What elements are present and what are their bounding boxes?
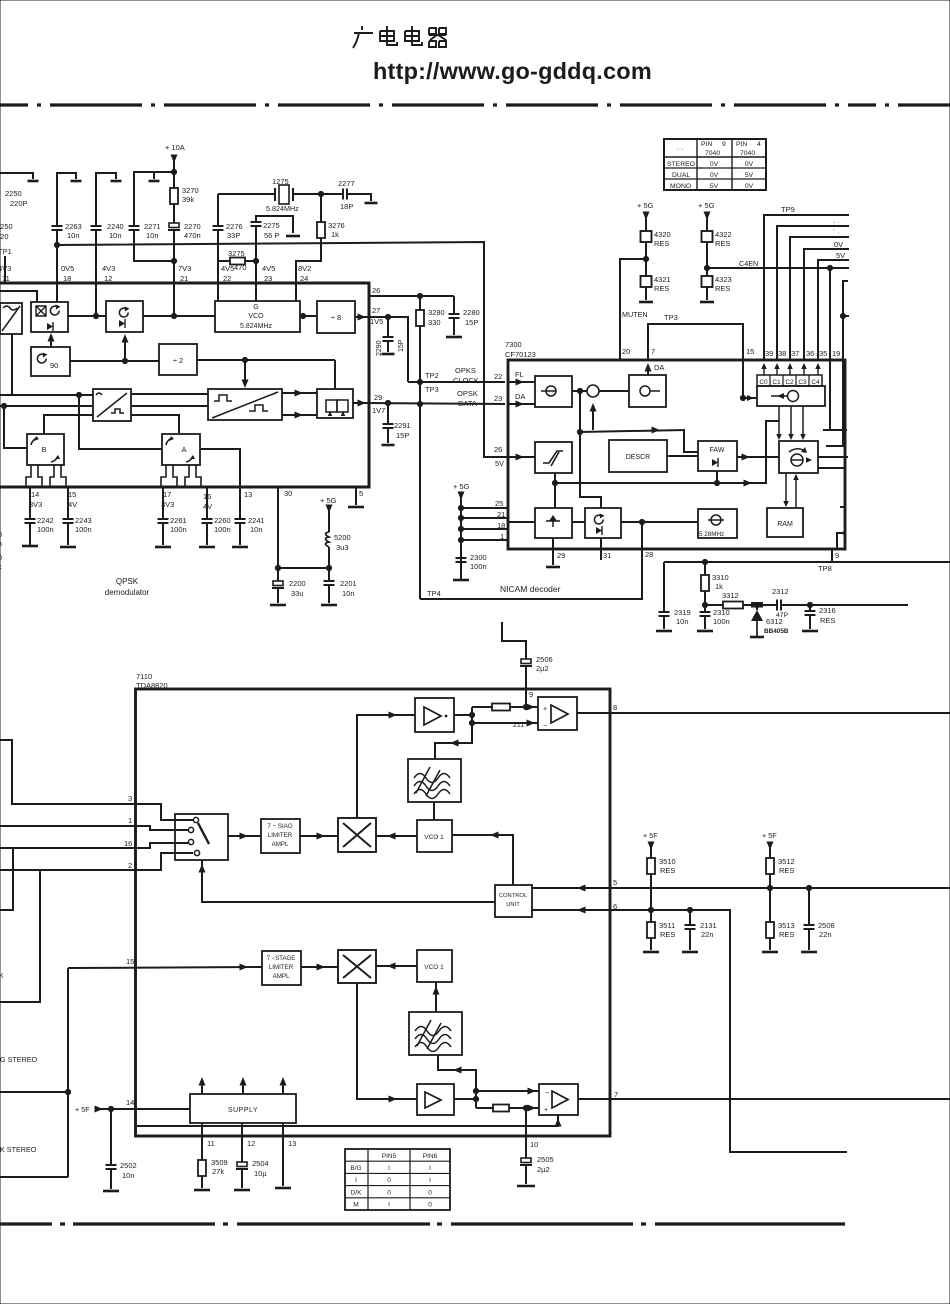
IC NICAM decoder box outline bbox=[508, 360, 845, 549]
svg-text:FAW: FAW bbox=[710, 447, 725, 454]
block opamp2 bbox=[539, 1084, 578, 1115]
svg-text:D/K: D/K bbox=[351, 1189, 363, 1196]
block 7-stage limiter ampl lower bbox=[262, 951, 301, 985]
svg-text:VCO 1: VCO 1 bbox=[424, 834, 444, 841]
block limiter slope bbox=[535, 442, 572, 473]
wire A switch right to pin13 bbox=[200, 449, 240, 487]
svg-text:+ 5F: + 5F bbox=[75, 1105, 90, 1114]
resistor 3312 bbox=[705, 604, 723, 606]
wire left edge to clock regen bbox=[508, 521, 535, 523]
wires interpolator to RAM bbox=[785, 473, 787, 505]
wire pin24 8V2 bbox=[296, 238, 321, 301]
svg-text:BB405B: BB405B bbox=[764, 628, 789, 635]
wire node bottom arrow bbox=[592, 406, 594, 430]
svg-text:2: 2 bbox=[128, 861, 132, 870]
capacitor 2319 10n bbox=[659, 612, 670, 616]
wire limiter1 to mixer1 bbox=[300, 835, 338, 837]
svg-text:0V5: 0V5 bbox=[61, 264, 74, 273]
svg-text:2508: 2508 bbox=[818, 921, 835, 930]
svg-text:5.824MHz: 5.824MHz bbox=[240, 323, 272, 330]
svg-text:C2: C2 bbox=[785, 379, 794, 386]
svg-text:15P: 15P bbox=[396, 431, 409, 440]
wire U1c bottom arrow bbox=[124, 338, 126, 358]
svg-text:100n: 100n bbox=[713, 617, 730, 626]
block mixer2 bbox=[338, 950, 376, 983]
block VCO1 upper bbox=[417, 820, 452, 852]
wire TP9 to pin39 bbox=[764, 215, 849, 361]
svg-text:B/G: B/G bbox=[350, 1165, 361, 1172]
capacitor 2310 100n bbox=[700, 612, 711, 616]
wire clock regen to phase diode bbox=[572, 521, 585, 523]
resistor 3270 39k bbox=[170, 188, 178, 204]
IC TDA8820 box outline bbox=[136, 689, 611, 1136]
wire mixer1 up to amp1 bbox=[357, 715, 415, 818]
svg-text:2260: 2260 bbox=[214, 516, 231, 525]
svg-text:RES: RES bbox=[715, 239, 730, 248]
block SUPPLY bbox=[190, 1094, 296, 1123]
wire QPSK CLOCK line TP2 bbox=[408, 381, 505, 383]
resistor 4322 RES bbox=[702, 231, 713, 242]
block phase diode bbox=[585, 508, 621, 538]
svg-text:0V: 0V bbox=[834, 240, 843, 249]
svg-text:TP3: TP3 bbox=[425, 385, 439, 394]
svg-text:2271: 2271 bbox=[144, 222, 161, 231]
IC QPSK demodulator box outline bbox=[0, 283, 369, 487]
capacitor 2263 10n bbox=[52, 226, 63, 230]
wire U1b to U1c bbox=[68, 315, 106, 317]
wire VCO2 to mixer2 bbox=[376, 965, 417, 967]
svg-text:MUTEN: MUTEN bbox=[622, 310, 648, 319]
wire eye coder to A switch top bbox=[131, 415, 179, 433]
capacitor 2240 10n bbox=[91, 226, 102, 230]
svg-text:10n: 10n bbox=[67, 231, 80, 240]
wire TP3 bracket pin7 pin15 bbox=[648, 324, 743, 361]
inductor 5200 3u3 bbox=[326, 532, 330, 547]
wire 3280 bottom TP2 TP3 vertical bbox=[419, 326, 421, 599]
svg-text:4V: 4V bbox=[68, 500, 77, 509]
svg-text:+: + bbox=[544, 1107, 548, 1114]
svg-text:RES: RES bbox=[660, 930, 675, 939]
svg-text:7110: 7110 bbox=[136, 672, 152, 681]
resistor 3310 1k bbox=[704, 562, 706, 575]
wire amp2 out bbox=[454, 1098, 476, 1100]
svg-text:211: 211 bbox=[513, 722, 524, 729]
wire 0V line to pin36 bbox=[804, 249, 849, 361]
resistor 3511 RES bbox=[650, 910, 652, 922]
svg-text:2250: 2250 bbox=[5, 189, 22, 198]
svg-text:100n: 100n bbox=[37, 525, 54, 534]
svg-text:−: − bbox=[545, 1090, 549, 1097]
wire pin5 to ground bbox=[355, 487, 357, 505]
resistor opamp2 plus line bbox=[476, 1107, 493, 1109]
svg-text:+ 10A: + 10A bbox=[165, 143, 185, 152]
svg-text:LIMITER: LIMITER bbox=[269, 964, 294, 971]
block filter2 bandpass bbox=[409, 1012, 462, 1055]
svg-text:7: 7 bbox=[614, 1090, 618, 1099]
wire phase shifter up-arrow to U1b bbox=[50, 335, 52, 347]
capacitor 2316 RES bbox=[809, 605, 811, 611]
block mixer1 bbox=[338, 818, 376, 852]
svg-text:http://www.go-gddq.com: http://www.go-gddq.com bbox=[373, 58, 652, 84]
svg-text:+ 5G: + 5G bbox=[698, 201, 715, 210]
svg-text:RES: RES bbox=[779, 866, 794, 875]
svg-text:RES: RES bbox=[779, 930, 794, 939]
top dash-dot separator line bbox=[0, 103, 950, 106]
wire node feedback vertical bbox=[580, 391, 601, 508]
wire MUTEN to pin20 bbox=[620, 259, 646, 361]
wires latch driver down to interpolator bbox=[778, 406, 780, 438]
svg-text:3275: 3275 bbox=[228, 249, 245, 258]
svg-text:2270: 2270 bbox=[184, 222, 201, 231]
svg-text:10n: 10n bbox=[250, 525, 263, 534]
svg-text:AMPL: AMPL bbox=[273, 973, 290, 980]
svg-text:MONO: MONO bbox=[670, 183, 691, 190]
block DESCR bbox=[609, 440, 667, 472]
svg-text:0: 0 bbox=[428, 1189, 432, 1196]
capacitor 2243 100n bbox=[67, 487, 69, 519]
wire phase shifter to div2 bbox=[70, 360, 159, 362]
svg-text:33u: 33u bbox=[291, 589, 304, 598]
svg-text:13: 13 bbox=[288, 1139, 296, 1148]
svg-text:7V3: 7V3 bbox=[178, 264, 191, 273]
wire pin18 into U1b bbox=[56, 283, 58, 302]
svg-text:VCO 1: VCO 1 bbox=[424, 964, 444, 971]
svg-text:10n: 10n bbox=[122, 1171, 135, 1180]
resistor 3510 RES bbox=[647, 858, 655, 874]
svg-text:13: 13 bbox=[244, 490, 252, 499]
svg-text:3276: 3276 bbox=[328, 221, 345, 230]
svg-text:29: 29 bbox=[374, 393, 382, 402]
wire VCO1 to mixer1 bbox=[376, 835, 417, 837]
svg-text:A: A bbox=[181, 445, 186, 454]
svg-text:7040: 7040 bbox=[740, 150, 755, 157]
resistor feedback opamp1 bbox=[472, 706, 492, 708]
svg-text:2261: 2261 bbox=[170, 516, 187, 525]
wire div8 output pin27 bbox=[355, 316, 369, 318]
svg-text:2291: 2291 bbox=[394, 421, 411, 430]
svg-text:2276: 2276 bbox=[226, 222, 243, 231]
svg-text:2504: 2504 bbox=[252, 1159, 269, 1168]
svg-text:4320: 4320 bbox=[654, 230, 671, 239]
svg-text:4V3: 4V3 bbox=[0, 264, 11, 273]
wires interpolator outputs right bbox=[818, 456, 848, 458]
svg-text:220P: 220P bbox=[10, 199, 28, 208]
svg-text:29: 29 bbox=[557, 551, 565, 560]
svg-text:2200: 2200 bbox=[289, 579, 306, 588]
svg-text:K STEREO: K STEREO bbox=[0, 1145, 37, 1154]
svg-text:RES: RES bbox=[660, 866, 675, 875]
svg-text:I: I bbox=[429, 1177, 431, 1184]
svg-text:RES: RES bbox=[654, 284, 669, 293]
svg-text:90: 90 bbox=[50, 361, 58, 370]
svg-text:3512: 3512 bbox=[778, 857, 795, 866]
wire pin22 pin23 pin24 into VCO bbox=[217, 283, 219, 301]
svg-text:7040: 7040 bbox=[705, 150, 720, 157]
varactor diode 6312 BB405B bbox=[756, 605, 758, 610]
pin 11 wire and resistor 3509 27k bbox=[201, 1123, 203, 1160]
table PIN5 PIN6 standards bbox=[345, 1149, 450, 1210]
block latch driver bbox=[757, 386, 825, 406]
svg-text:2µ2: 2µ2 bbox=[537, 1165, 550, 1174]
wire filter2 bottom elbow bbox=[438, 1055, 476, 1108]
svg-text:2277: 2277 bbox=[338, 179, 355, 188]
capacitor 2291 15P bbox=[387, 403, 389, 424]
svg-text:30: 30 bbox=[284, 489, 292, 498]
svg-text:20: 20 bbox=[622, 347, 630, 356]
wire mixer2 down to amp2 bbox=[357, 983, 417, 1099]
block divide-by-8 bbox=[317, 301, 355, 333]
svg-text:5 28MHz: 5 28MHz bbox=[699, 531, 724, 538]
svg-text:I: I bbox=[388, 1202, 390, 1209]
wire pin30 to rail bbox=[277, 487, 279, 568]
svg-text:QPSK: QPSK bbox=[116, 577, 139, 586]
svg-text:3280: 3280 bbox=[428, 308, 445, 317]
block U1a FM demod (clipped) bbox=[0, 303, 22, 334]
wire limiter bottom rail bbox=[554, 473, 556, 508]
wires eye coder to sampler bbox=[282, 392, 317, 394]
wire left vertical x68 bbox=[67, 968, 69, 1177]
wire DA out to pin 7 bbox=[647, 366, 649, 375]
terminator stub T1 bbox=[0, 173, 33, 179]
svg-text:8: 8 bbox=[613, 703, 617, 712]
svg-text:PIN: PIN bbox=[701, 141, 712, 148]
svg-text:16: 16 bbox=[124, 839, 132, 848]
wire limiter2 to mixer2 bbox=[301, 966, 338, 968]
svg-text:· ·: · · bbox=[677, 146, 684, 153]
wire phase diode to 5.28MHz osc bbox=[621, 521, 698, 523]
block descrambler input amp bbox=[535, 376, 572, 407]
svg-text:I: I bbox=[429, 1165, 431, 1172]
block sampler latch bbox=[317, 389, 353, 418]
svg-text:C4: C4 bbox=[811, 379, 820, 386]
svg-text:DATA: DATA bbox=[458, 399, 477, 408]
svg-text:5200: 5200 bbox=[334, 533, 351, 542]
wire bus line dotdot to pin38 bbox=[777, 226, 849, 361]
svg-text:14: 14 bbox=[31, 490, 39, 499]
svg-text:12: 12 bbox=[247, 1139, 255, 1148]
svg-text:2300: 2300 bbox=[470, 553, 487, 562]
capacitor 2300 100n bbox=[456, 558, 467, 562]
svg-text:39: 39 bbox=[765, 349, 773, 358]
wires coder to eye coder bbox=[131, 393, 208, 395]
svg-text:5V: 5V bbox=[710, 183, 719, 190]
svg-text:22n: 22n bbox=[701, 930, 714, 939]
svg-text:0: 0 bbox=[0, 555, 2, 562]
svg-text:56 P: 56 P bbox=[264, 231, 279, 240]
svg-text:SUPPLY: SUPPLY bbox=[228, 1107, 258, 1114]
supply output arrows bbox=[201, 1080, 203, 1094]
svg-text:2243: 2243 bbox=[75, 516, 92, 525]
svg-text:· ·: · · bbox=[833, 219, 840, 226]
svg-text:1k: 1k bbox=[715, 582, 723, 591]
svg-text:I: I bbox=[355, 1177, 357, 1184]
svg-text:2240: 2240 bbox=[107, 222, 124, 231]
block B carrier switch bbox=[27, 434, 64, 465]
svg-text:4V5: 4V5 bbox=[221, 264, 234, 273]
wire DESCR to FAW bbox=[667, 455, 698, 457]
terminator stub T2 bbox=[57, 173, 76, 226]
svg-text:25: 25 bbox=[495, 499, 503, 508]
svg-text:100n: 100n bbox=[470, 562, 487, 571]
horizontal wire 5V rail y=243 to NICAM pin26 bbox=[57, 242, 508, 457]
block U1b quad mixer bbox=[31, 302, 68, 332]
svg-text:TP3: TP3 bbox=[664, 313, 678, 322]
svg-text:28: 28 bbox=[645, 550, 653, 559]
block 90deg phase shifter bbox=[31, 347, 70, 376]
svg-text:+ 5F: + 5F bbox=[762, 831, 777, 840]
wire rail 2200 2201 bbox=[278, 567, 329, 569]
svg-text:DA: DA bbox=[515, 392, 525, 401]
svg-text:C1: C1 bbox=[772, 379, 781, 386]
svg-text:TP4: TP4 bbox=[427, 589, 441, 598]
input wire top-left into mixer block bbox=[0, 291, 37, 302]
svg-text:100n: 100n bbox=[75, 525, 92, 534]
svg-text:15P: 15P bbox=[465, 318, 478, 327]
capacitor 2277 18P bbox=[321, 193, 343, 195]
block U1c phase detector bbox=[106, 301, 143, 332]
svg-text:I: I bbox=[388, 1165, 390, 1172]
svg-text:DUAL: DUAL bbox=[672, 172, 690, 179]
svg-text:1: 1 bbox=[128, 816, 132, 825]
svg-text:2280: 2280 bbox=[463, 308, 480, 317]
table PIN9/PIN4 7040 modes bbox=[664, 139, 766, 190]
block DA converter bbox=[629, 375, 666, 407]
svg-text:5: 5 bbox=[613, 878, 617, 887]
capacitor 2508 22n bbox=[808, 888, 810, 925]
resistor 3275 470 bbox=[218, 260, 230, 262]
svg-text:3: 3 bbox=[128, 794, 132, 803]
svg-text:15P: 15P bbox=[398, 339, 405, 352]
svg-text:0: 0 bbox=[387, 1189, 391, 1196]
svg-text:470: 470 bbox=[234, 263, 247, 272]
svg-text:2505: 2505 bbox=[537, 1155, 554, 1164]
input wire Q y=406 bbox=[0, 405, 93, 407]
svg-text:100n: 100n bbox=[214, 525, 231, 534]
svg-text:STEREO: STEREO bbox=[667, 161, 695, 168]
svg-text:PIN5: PIN5 bbox=[382, 1153, 397, 1160]
capacitor 2131 22n bbox=[689, 910, 691, 925]
svg-text:7 −STAGE: 7 −STAGE bbox=[267, 956, 295, 962]
svg-text:2242: 2242 bbox=[37, 516, 54, 525]
svg-text:9: 9 bbox=[529, 690, 533, 699]
svg-text:7 − SIAG: 7 − SIAG bbox=[267, 823, 292, 830]
svg-text:38: 38 bbox=[778, 349, 786, 358]
block interpolator bbox=[779, 441, 818, 473]
wire 5V line to pin35 bbox=[818, 260, 849, 361]
svg-text:4322: 4322 bbox=[715, 230, 732, 239]
svg-text:2µ2: 2µ2 bbox=[536, 664, 549, 673]
capacitor 2280 15P bbox=[453, 296, 455, 314]
wire switch to limiter1 bbox=[228, 835, 261, 837]
svg-text:7300: 7300 bbox=[505, 340, 522, 349]
wire A switch left input from I line bbox=[79, 395, 162, 449]
block eye coder bbox=[208, 389, 282, 420]
wire TP4 line from TP vertical to pin28 bbox=[420, 522, 642, 599]
svg-text:TP8: TP8 bbox=[818, 564, 832, 573]
svg-text:27: 27 bbox=[372, 306, 380, 315]
svg-text:demodulator: demodulator bbox=[105, 588, 150, 597]
svg-text:10n: 10n bbox=[676, 617, 689, 626]
capacitor 2260 100n bbox=[206, 487, 208, 519]
svg-text:31: 31 bbox=[603, 551, 611, 560]
capacitor 2271 10n bbox=[129, 226, 140, 230]
svg-text:CONTROL: CONTROL bbox=[499, 893, 528, 899]
svg-text:C3: C3 bbox=[798, 379, 807, 386]
svg-text:3V3: 3V3 bbox=[29, 500, 42, 509]
svg-text:+: + bbox=[543, 706, 547, 713]
svg-text:M: M bbox=[353, 1202, 358, 1209]
terminator stub T4 joining +10A rail bbox=[134, 172, 174, 226]
svg-text:−: − bbox=[543, 723, 547, 730]
pin 12 wire and capacitor 2504 10u bbox=[241, 1123, 243, 1162]
svg-text:3u3: 3u3 bbox=[336, 543, 349, 552]
crystal 1275 5.824MHz bbox=[218, 193, 275, 195]
svg-text:27k: 27k bbox=[212, 1167, 224, 1176]
svg-text:15: 15 bbox=[746, 347, 754, 356]
capacitor 2201 10n bbox=[328, 568, 330, 581]
wire filter2 to VCO2 with up arrow bbox=[435, 982, 437, 1012]
block RAM bbox=[767, 508, 803, 537]
svg-text:8V2: 8V2 bbox=[298, 264, 311, 273]
svg-text:5V: 5V bbox=[745, 172, 754, 179]
svg-text:37: 37 bbox=[791, 349, 799, 358]
wire pin9 elbow inside bbox=[837, 507, 845, 549]
svg-text:n: n bbox=[0, 541, 2, 548]
wire pin 10 and capacitor 2505 bbox=[525, 1108, 527, 1158]
capacitor 2275 56P bbox=[256, 216, 293, 233]
block A carrier switch bbox=[162, 434, 200, 465]
svg-text:470n: 470n bbox=[184, 231, 201, 240]
svg-text:0V: 0V bbox=[710, 161, 719, 168]
svg-text:35: 35 bbox=[819, 349, 827, 358]
resistor 4321 RES bbox=[641, 276, 652, 287]
svg-text:0: 0 bbox=[428, 1202, 432, 1209]
svg-text:RAM: RAM bbox=[777, 521, 793, 528]
svg-text:100n: 100n bbox=[170, 525, 187, 534]
input wire I y=395 bbox=[0, 394, 93, 396]
wire C4EN line bbox=[707, 267, 849, 269]
wire G stereo input bbox=[0, 1091, 68, 1093]
svg-text:DESCR: DESCR bbox=[626, 454, 651, 461]
svg-text:15: 15 bbox=[126, 957, 134, 966]
svg-text:CLOCK: CLOCK bbox=[453, 376, 479, 385]
svg-text:G STEREO: G STEREO bbox=[0, 1055, 38, 1064]
block input selector switch bbox=[175, 814, 228, 860]
svg-text:DA: DA bbox=[654, 363, 664, 372]
pin 13 wire bbox=[282, 1123, 284, 1186]
wires latch cells up to pins 39-35 bbox=[763, 366, 765, 375]
svg-text:´ ·: ´ · bbox=[833, 230, 840, 237]
svg-text:2312: 2312 bbox=[772, 587, 789, 596]
svg-text:330: 330 bbox=[428, 318, 441, 327]
svg-text:2319: 2319 bbox=[674, 608, 691, 617]
svg-text:5V: 5V bbox=[495, 459, 504, 468]
wire B switch left input bbox=[4, 406, 27, 448]
capacitor 2270 470n bbox=[169, 223, 179, 228]
block oscillator 5.28MHz bbox=[698, 509, 737, 538]
resistor 4320 RES bbox=[641, 231, 652, 242]
node circle bbox=[587, 385, 599, 397]
svg-text:RES: RES bbox=[715, 284, 730, 293]
svg-text:0: 0 bbox=[387, 1177, 391, 1184]
capacitor 2200 33u bbox=[277, 568, 279, 581]
svg-text:36: 36 bbox=[806, 349, 814, 358]
svg-text:FL: FL bbox=[515, 370, 524, 379]
svg-text:10: 10 bbox=[530, 1140, 538, 1149]
capacitor 2242 100n bbox=[29, 487, 31, 519]
block FAW bbox=[698, 441, 737, 471]
wire control to VCO1 bbox=[452, 835, 513, 885]
